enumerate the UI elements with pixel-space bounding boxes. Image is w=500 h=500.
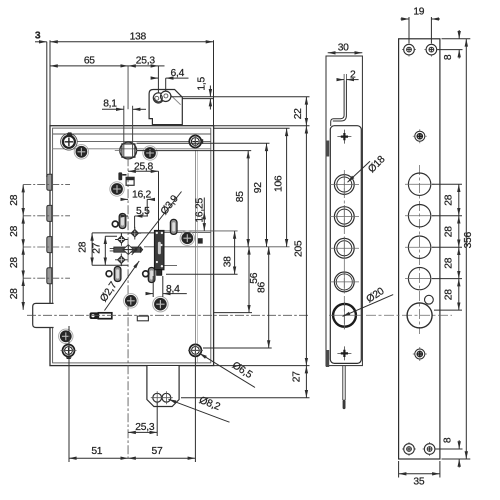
small part P2 [126,177,134,185]
ext bottom screws down [69,326,195,462]
svg-text:27: 27 [292,371,303,382]
ext 92 [137,142,270,144]
side vertical center line [343,170,345,332]
dim 86 [268,247,270,348]
slot hole upper-left [119,214,126,229]
dim 6,4 arrows outside [151,77,158,79]
svg-text:65: 65 [84,56,95,67]
ring lower-left [106,271,112,277]
side tab 3 [47,237,52,253]
ext line body right edge up [213,40,215,126]
bolt actuator bar [155,231,164,276]
internal line B [53,148,211,150]
ext 56 bottom [214,312,252,314]
leader dia2,7 [105,261,140,311]
side hole 1 dia18 [330,173,359,196]
dim 8,1 arrows outside [102,108,124,110]
ext 106 [214,127,290,129]
screw mid-top dark [143,146,157,160]
ext line tab edge column [46,42,48,177]
svg-text:27: 27 [92,242,103,253]
svg-text:19: 19 [413,7,424,18]
svg-text:51: 51 [91,446,102,457]
side tab 2 [47,205,52,221]
svg-text:28: 28 [443,194,454,205]
screw top-left dark [74,145,88,159]
mini dim connectors [92,233,154,265]
screw bottom-left washer [63,345,75,357]
leader dia20 [343,295,394,317]
plate top hole R [424,43,438,57]
svg-text:86: 86 [256,282,267,293]
svg-text:8,1: 8,1 [103,99,117,110]
svg-text:3: 3 [35,31,41,42]
body bottom ext right [214,365,310,367]
dim 57 [128,457,195,459]
svg-text:25,8: 25,8 [134,161,154,172]
dim 106 [286,128,288,247]
dim 35 [399,473,440,475]
svg-text:106: 106 [274,175,285,192]
dim 51 [69,457,128,459]
screw bottom-left dark [59,329,73,343]
svg-text:28: 28 [77,241,88,252]
left chain dim line 28x4 [22,185,24,216]
dim 56 [248,247,250,313]
screw bottom-mid dark 1 [124,294,138,308]
dim 85 [247,151,249,247]
ext plate top right [442,38,471,40]
dim 30 [328,52,363,54]
dim 25,3 top [128,65,158,67]
side tab 4 [47,268,52,284]
keeper hole center ext [171,96,310,98]
rivet mark A [115,233,128,246]
ext bottom holes right [436,448,463,450]
internal mid reference line [144,246,290,248]
side tab 1 [47,174,52,190]
dim 19 arrows outside [401,18,410,20]
svg-text:6,4: 6,4 [171,68,185,79]
svg-text:5,5: 5,5 [136,206,150,217]
dim 205 [305,126,307,366]
screw bottom-right washer [189,344,201,356]
svg-text:28: 28 [9,225,20,236]
svg-text:28: 28 [9,257,20,268]
lock body inner plate rect [53,128,211,363]
svg-text:28: 28 [443,226,454,237]
plate bottom hole L [402,442,416,456]
edge nub top [326,141,329,157]
edge nub bottom [326,350,329,367]
svg-text:8: 8 [443,54,454,60]
svg-text:28: 28 [443,289,454,300]
svg-text:35: 35 [413,476,424,487]
screw top-right washer [189,136,201,148]
mini dim 27 [104,236,106,265]
ext hole column up [157,66,159,94]
svg-text:25,3: 25,3 [136,56,156,67]
bottom rod [343,366,345,400]
dim 2 arrows outside [337,79,344,81]
plus mark bottom [337,346,351,360]
top keeper bracket [149,90,182,125]
plus mark top [337,130,351,144]
slot hole right-top [170,219,177,234]
plate center line through dia20 [366,314,452,316]
dim 8,4 arrows outside [147,293,153,295]
side outer plate rect [326,56,362,366]
ext 8,4 [153,276,163,297]
dim 356 [465,39,467,459]
dim 16,2 arrows outside [121,198,129,200]
nub above top-left washer [66,132,72,135]
internal line pair right of slot [164,231,238,266]
plate hole 1 dia18 [405,173,435,195]
ext 25,8 right down [158,171,160,230]
screw bottom-mid dark 2 [153,296,168,311]
ext top holes up [409,17,431,43]
svg-text:8,4: 8,4 [166,284,180,295]
dim 8 bottom arrows outside [458,440,460,449]
internal screw row line [77,140,211,142]
svg-text:28: 28 [9,194,20,205]
dim 3 [35,41,47,43]
svg-text:28: 28 [9,288,20,299]
follower center line horizontal [115,150,146,152]
ext plate bottom right [442,458,471,460]
plate small hole [425,295,434,304]
latch bolt [33,303,54,327]
faceplate rect [399,39,440,459]
dim 27 right [305,366,307,398]
side dims [328,53,394,317]
svg-text:92: 92 [253,182,264,193]
svg-text:57: 57 [152,446,163,457]
leader dia18 [348,161,371,182]
svg-text:1,5: 1,5 [197,77,208,91]
svg-text:28: 28 [443,257,454,268]
keeper top line ext [183,98,214,100]
dim 25,3 bottom [128,431,157,433]
ext bracket hole down [156,403,158,437]
svg-text:85: 85 [235,191,246,202]
ext 86 bottom [203,347,272,349]
svg-text:205: 205 [293,240,304,257]
cylinder pin lower-left [90,312,112,319]
plate hole 2 dia18 [405,205,435,227]
dim 25,8 [128,170,158,172]
side case rounded rect [330,126,361,364]
ext plate bottom corners down [399,461,440,478]
ext 38 bottom [166,273,238,275]
inner mechanism vertical line [194,150,196,363]
ext 85 [137,150,251,152]
latch center line [27,314,310,316]
dim 65 [50,65,128,67]
bent tab L [331,81,347,127]
ring upper-left [112,221,118,227]
side hole dia20 bold [329,302,361,329]
plate hole dia20 [407,303,432,328]
dim 1,5 arrows outside [209,86,211,97]
dim 5,5 arrows outside [121,215,129,217]
svg-text:25,3: 25,3 [135,422,155,433]
svg-text:138: 138 [130,32,147,43]
ext top holes right [438,49,463,51]
slot hole lower-mid [148,268,155,283]
plate hole 3 dia18 [405,236,435,258]
plate dims [399,17,471,478]
nub right of top-right washer [200,139,203,144]
side hole 3 dia18 [330,237,359,260]
plate bottom hole R [423,442,437,456]
svg-text:16,2: 16,2 [132,190,152,201]
side hole 2 dia18 [330,205,359,228]
dim 28 chain right [458,184,460,216]
svg-text:16,25: 16,25 [195,198,206,223]
leader dia6,5 [199,353,255,387]
screw right dark [180,231,194,245]
svg-text:8: 8 [443,437,454,443]
svg-text:30: 30 [338,43,349,54]
center line vertical [127,66,129,109]
bracket hole ext right [181,397,310,399]
dim 16,25 [203,198,205,212]
tab center lines [23,185,70,279]
slider bar diamond [123,245,134,255]
ext 16,2 right [146,199,148,216]
svg-text:38: 38 [223,256,234,267]
dim 138 [50,41,214,43]
follower circle [120,142,137,159]
svg-text:356: 356 [463,231,474,248]
rivet column line [120,233,122,265]
plate cross screw bottom [413,347,427,361]
mini dim 28 [91,233,93,265]
leader dia8,2 [169,399,230,422]
bottom mounting bracket [147,366,179,407]
side hole 4 dia18 [330,270,359,293]
svg-text:2: 2 [350,69,356,80]
dim 22 [305,97,307,126]
small dark slot right edge [198,238,203,243]
ring lower-mid [143,271,149,277]
screw top-left washer [61,134,78,151]
slider bar stem [110,248,122,251]
leader dia3,9 [132,192,182,255]
plate center line [419,165,421,334]
slot hole lower-left [114,267,121,282]
dim 8 top arrows outside [458,30,460,39]
plate top hole L [402,43,416,57]
ext circle rows right [432,184,462,310]
ext line body left edge up [49,40,51,126]
rivet mark C [115,253,128,266]
small open rect lower-mid [137,316,148,321]
small part P1 [118,172,126,180]
dim 38 [234,231,236,274]
svg-text:22: 22 [293,108,304,119]
plate hole 4 dia18 [405,267,435,289]
body top ext right [214,125,310,127]
internal plate line A [53,133,211,135]
spindle channel pair [124,106,133,157]
lock body outer rect [50,126,214,366]
plate cross screw top [413,129,427,143]
slider bar body [114,247,143,252]
rivet mark B [129,227,142,240]
dim 92 [266,143,268,247]
ext 5,5 right down [134,216,136,229]
follower square [122,144,135,157]
screw left dark [110,182,124,196]
